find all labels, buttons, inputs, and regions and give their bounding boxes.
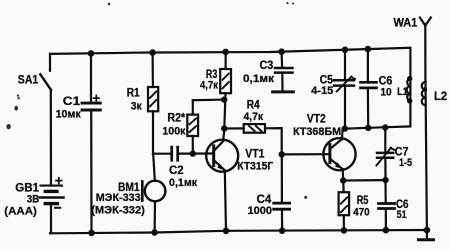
svg-text:WA1: WA1: [394, 16, 418, 29]
svg-text:51: 51: [397, 209, 408, 221]
junction collector node VT1: [221, 125, 227, 131]
junction R2 to collector column: [221, 96, 227, 102]
junction tank line C6: [365, 125, 371, 131]
svg-text:VT1: VT1: [245, 147, 265, 160]
resistor R2: [187, 100, 224, 154]
wire bottom common rail: [50, 230, 427, 233]
resistor R3: [220, 52, 231, 141]
svg-text:0,1мк: 0,1мк: [169, 177, 197, 189]
svg-text:GB1: GB1: [15, 181, 39, 194]
junction tank line C7: [382, 124, 388, 130]
svg-text:(AAA): (AAA): [4, 206, 37, 218]
svg-text:R2*: R2*: [167, 112, 185, 125]
svg-text:100к: 100к: [162, 125, 185, 137]
svg-text:10мк: 10мк: [56, 109, 81, 121]
junction top rail R1: [149, 49, 156, 56]
svg-text:R1: R1: [127, 86, 140, 99]
junction emitter line C6-51: [382, 177, 388, 183]
svg-text:МЭК-333: МЭК-333: [96, 192, 141, 204]
svg-text:0,1мк: 0,1мк: [243, 73, 274, 85]
capacitor C6 emitter: [379, 180, 395, 230]
svg-text:1-5: 1-5: [399, 157, 413, 169]
junction bottom rail C1: [88, 230, 95, 237]
svg-text:4,7к: 4,7к: [200, 80, 218, 92]
transistor VT2: [323, 129, 355, 181]
junction top rail C3: [278, 48, 285, 55]
antenna WA1: [420, 18, 431, 83]
svg-text:C1: C1: [63, 95, 81, 108]
junction base node VT1: [190, 150, 196, 156]
microphone BM1: [142, 154, 165, 233]
svg-text:470: 470: [353, 207, 369, 219]
junction collector node VT2: [342, 125, 348, 131]
svg-text:3к: 3к: [131, 100, 142, 112]
capacitor C3: [275, 52, 293, 91]
wire base VT2: [282, 153, 330, 155]
battery GB1: [40, 178, 64, 234]
capacitor C4: [274, 154, 290, 230]
svg-text:C2: C2: [169, 164, 184, 177]
capacitor C1: [82, 53, 100, 233]
junction top rail R3: [222, 49, 229, 56]
junction bottom rail VT1 emitter: [223, 228, 230, 235]
switch SA1: [40, 54, 51, 186]
svg-text:C6: C6: [379, 74, 393, 87]
junction base node VT2: [279, 151, 285, 157]
svg-text:R5: R5: [357, 194, 369, 207]
svg-text:(МЭК-332): (МЭК-332): [91, 204, 145, 216]
svg-text:L2: L2: [434, 90, 447, 103]
svg-text:1000: 1000: [248, 205, 273, 217]
resistor R5: [339, 181, 350, 231]
svg-text:L1: L1: [397, 86, 408, 98]
resistor R4: [224, 124, 281, 154]
svg-text:C3: C3: [260, 59, 274, 72]
wire emitter VT2: [343, 179, 385, 182]
svg-text:КТ315Г: КТ315Г: [237, 160, 273, 172]
svg-text:4,7к: 4,7к: [243, 111, 263, 123]
junction emitter node VT2: [340, 177, 346, 183]
svg-text:VT2: VT2: [307, 112, 326, 125]
junction top rail C5: [342, 47, 349, 54]
junction bottom rail C4: [279, 227, 286, 234]
svg-text:R4: R4: [247, 98, 260, 111]
junction bottom rail R5: [341, 227, 348, 234]
resistor R1: [148, 53, 158, 154]
trimmer capacitor C5: [334, 50, 355, 129]
trimmer capacitor C7: [376, 128, 394, 181]
inductor L2: [422, 82, 428, 230]
wire collector tank line: [343, 126, 410, 128]
svg-text:3В: 3В: [27, 193, 39, 205]
svg-text:4-15: 4-15: [311, 85, 334, 97]
svg-text:SA1: SA1: [18, 74, 39, 87]
svg-text:КТ368БМ: КТ368БМ: [293, 126, 341, 138]
junction bottom rail C6-51: [383, 227, 390, 234]
junction top rail C6: [365, 46, 372, 53]
junction bottom rail BM1: [151, 229, 158, 236]
transistor VT1: [206, 140, 238, 231]
capacitor C2: [153, 147, 213, 160]
ground bottom right: [419, 230, 434, 240]
svg-text:10: 10: [380, 87, 391, 99]
junction bottom rail antenna: [424, 227, 431, 234]
inductor L1: [407, 48, 413, 127]
junction top rail C1: [88, 50, 95, 57]
chassis ground C3: [273, 90, 294, 93]
capacitor C6 tank: [361, 49, 377, 128]
wire top supply rail: [50, 48, 410, 54]
